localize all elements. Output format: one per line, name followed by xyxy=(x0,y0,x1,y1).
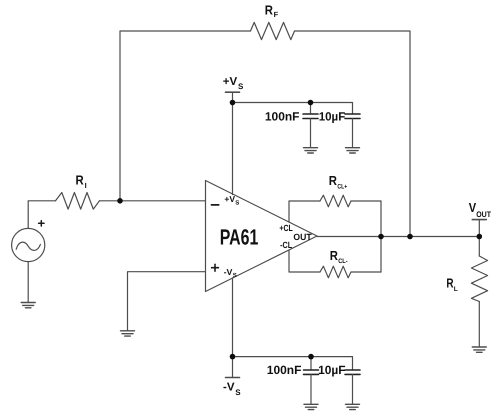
svg-text:-V: -V xyxy=(223,382,235,394)
junction bottom 100nF xyxy=(308,354,314,360)
wire +VS bar down into op-amp xyxy=(232,92,234,194)
wire output from apex to VOUT node xyxy=(317,236,479,238)
svg-text:R: R xyxy=(329,173,338,188)
ground below C1 xyxy=(304,148,318,153)
wire node down to RL xyxy=(478,237,480,257)
capacitor C4 10uF bottom plates xyxy=(345,370,360,374)
svg-text:R: R xyxy=(76,173,85,188)
label RCL+ xyxy=(329,173,348,190)
svg-text:CL-: CL- xyxy=(338,258,348,265)
svg-text:+V: +V xyxy=(224,194,235,204)
label RI xyxy=(76,173,87,190)
label RCL- xyxy=(330,248,348,265)
svg-text:L: L xyxy=(454,286,458,293)
ground below C2 xyxy=(346,148,360,153)
wire RCL- to right leg xyxy=(351,271,381,273)
junction +VS xyxy=(230,100,236,106)
svg-text:100nF: 100nF xyxy=(265,109,300,123)
junction feedback / output xyxy=(407,234,413,240)
source VS circle xyxy=(12,228,45,261)
label RF xyxy=(265,3,279,20)
wire VOUT bar to node xyxy=(478,220,480,237)
wire RCL+ to right leg xyxy=(351,200,381,202)
svg-text:R: R xyxy=(265,3,274,18)
wire +VS rail to bypass caps xyxy=(233,103,353,114)
svg-text:S: S xyxy=(238,82,244,91)
svg-text:S: S xyxy=(235,388,241,397)
svg-text:-V: -V xyxy=(224,267,233,277)
VOUT terminal bar xyxy=(472,219,486,221)
junction CL leg / output xyxy=(378,234,384,240)
source sine wave xyxy=(16,242,40,250)
svg-text:OUT: OUT xyxy=(476,210,491,219)
junction inverting node xyxy=(117,198,123,204)
source plus polarity mark xyxy=(39,221,44,226)
svg-text:+CL: +CL xyxy=(279,223,293,233)
label -VS supply xyxy=(223,382,241,397)
capacitor C1 100nF top: lead xyxy=(310,103,312,114)
wire RL to ground xyxy=(478,302,480,347)
wire source bottom to ground xyxy=(27,262,29,302)
op-amp U1 triangle xyxy=(206,181,318,292)
capacitor C3 lower lead xyxy=(310,374,312,403)
wire feedback: inverting node up and across top xyxy=(120,31,251,201)
label VOUT xyxy=(469,200,491,219)
capacitor C4 lower lead xyxy=(352,374,354,403)
ground at non-inverting input xyxy=(121,331,135,336)
wire feedback: RF to output node xyxy=(295,31,411,237)
resistor RF xyxy=(251,22,295,39)
capacitor C3 plates xyxy=(304,370,319,374)
svg-text:OUT: OUT xyxy=(293,232,312,242)
svg-text:10µF: 10µF xyxy=(319,109,346,123)
ground below source xyxy=(21,303,35,308)
wire +CL pin xyxy=(289,201,320,222)
svg-text:S: S xyxy=(235,200,239,207)
resistor RI xyxy=(56,193,100,210)
op-amp minus input mark xyxy=(212,204,219,206)
wire source top to RI xyxy=(28,201,55,229)
op-amp plus input mark xyxy=(212,264,219,271)
svg-text:S: S xyxy=(233,272,237,279)
+VS supply terminal bar xyxy=(226,91,240,93)
svg-text:PA61: PA61 xyxy=(220,224,259,249)
junction VOUT node xyxy=(477,234,483,240)
resistor RCL- xyxy=(320,266,351,278)
label RL xyxy=(446,275,457,293)
capacitor C3 100nF bottom: lead xyxy=(310,357,312,370)
svg-text:-CL: -CL xyxy=(280,240,292,250)
svg-text:I: I xyxy=(85,181,87,190)
ground below C3 xyxy=(304,404,318,409)
-VS supply terminal bar xyxy=(226,377,240,379)
wire non-inverting input to ground xyxy=(128,272,206,331)
svg-text:100nF: 100nF xyxy=(267,363,302,377)
resistor RL xyxy=(471,256,487,302)
svg-text:F: F xyxy=(274,10,279,19)
junction top 100nF xyxy=(308,100,314,106)
wire -VS rail to bypass caps xyxy=(233,357,353,370)
wire -VS from op-amp down to terminal xyxy=(232,278,234,378)
svg-text:+V: +V xyxy=(223,76,238,88)
wire current-limit right leg xyxy=(380,201,382,272)
ground below RL xyxy=(472,347,486,352)
label pin -Vs xyxy=(224,267,237,279)
wire RI to op-amp inverting input xyxy=(100,200,206,202)
capacitor C2 10uF top plates xyxy=(345,114,360,119)
capacitor C1 plates xyxy=(303,114,318,119)
wire -CL pin xyxy=(289,250,320,272)
junction -VS xyxy=(230,354,236,360)
label pin +Vs xyxy=(224,194,239,206)
svg-text:CL+: CL+ xyxy=(337,183,347,190)
label +VS supply xyxy=(223,76,244,91)
svg-text:10µF: 10µF xyxy=(318,363,345,377)
ground below C4 xyxy=(346,404,360,409)
capacitor C1 lower lead xyxy=(310,119,312,148)
resistor RCL+ xyxy=(320,195,351,207)
capacitor C2 lower lead xyxy=(352,119,354,148)
svg-text:R: R xyxy=(330,248,339,263)
